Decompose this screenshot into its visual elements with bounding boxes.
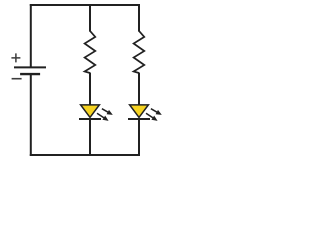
resistor R2 — [134, 31, 145, 73]
wire R2 branch top stub — [138, 4, 140, 32]
resistor R1 — [85, 31, 96, 73]
wire R2 branch bottom stub — [138, 119, 140, 156]
LED D2 cathode bar — [128, 118, 150, 120]
battery B1 positive plate — [14, 66, 46, 68]
LED D1 emission arrow lower — [97, 113, 109, 121]
LED D1 emission arrow upper — [102, 109, 113, 115]
LED D1 triangle anode — [81, 105, 100, 118]
battery B1 minus sign — [12, 78, 22, 80]
LED D2 triangle anode — [130, 105, 149, 118]
wire R1 branch top stub — [89, 4, 91, 32]
wire left rail upper — [30, 4, 32, 67]
LED D2 emission arrow upper — [151, 109, 162, 115]
wire top rail — [30, 4, 140, 6]
wire bottom rail — [30, 154, 140, 156]
wire between R2 and D2 — [138, 73, 140, 106]
LED D2 emission arrow lower — [146, 113, 158, 121]
battery B1 plus sign — [11, 53, 20, 62]
wire left rail lower — [30, 75, 32, 156]
wire R1 branch bottom stub — [89, 119, 91, 156]
wire between R1 and D1 — [89, 73, 91, 106]
battery B1 negative plate — [20, 73, 40, 75]
LED D1 cathode bar — [79, 118, 101, 120]
